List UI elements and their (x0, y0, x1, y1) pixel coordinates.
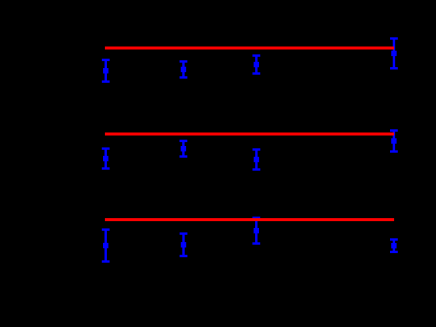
reference line panel 1 (drawn above errorbars) (105, 47, 394, 50)
errorbar point panel2 x1 (102, 149, 110, 169)
errorbar point panel2 x2 (180, 141, 188, 157)
reference line panel 2 (drawn above errorbars) (105, 132, 394, 135)
errorbar point panel2 x4 (390, 131, 398, 152)
errorbar point panel3 x2 (180, 234, 188, 256)
errorbar point panel1 x2 (180, 61, 188, 77)
errorbar point panel2 x3 (253, 150, 261, 170)
errorbar point panel1 x4 (390, 39, 398, 69)
errorbar point panel1 x1 (102, 60, 110, 82)
errorbar point panel3 x3 (252, 218, 260, 244)
errorbar point panel3 x4 (390, 240, 398, 252)
reference line panel 3 (drawn above errorbars) (105, 218, 394, 221)
errorbar point panel1 x3 (252, 56, 260, 74)
errorbar point panel3 x1 (102, 230, 110, 262)
